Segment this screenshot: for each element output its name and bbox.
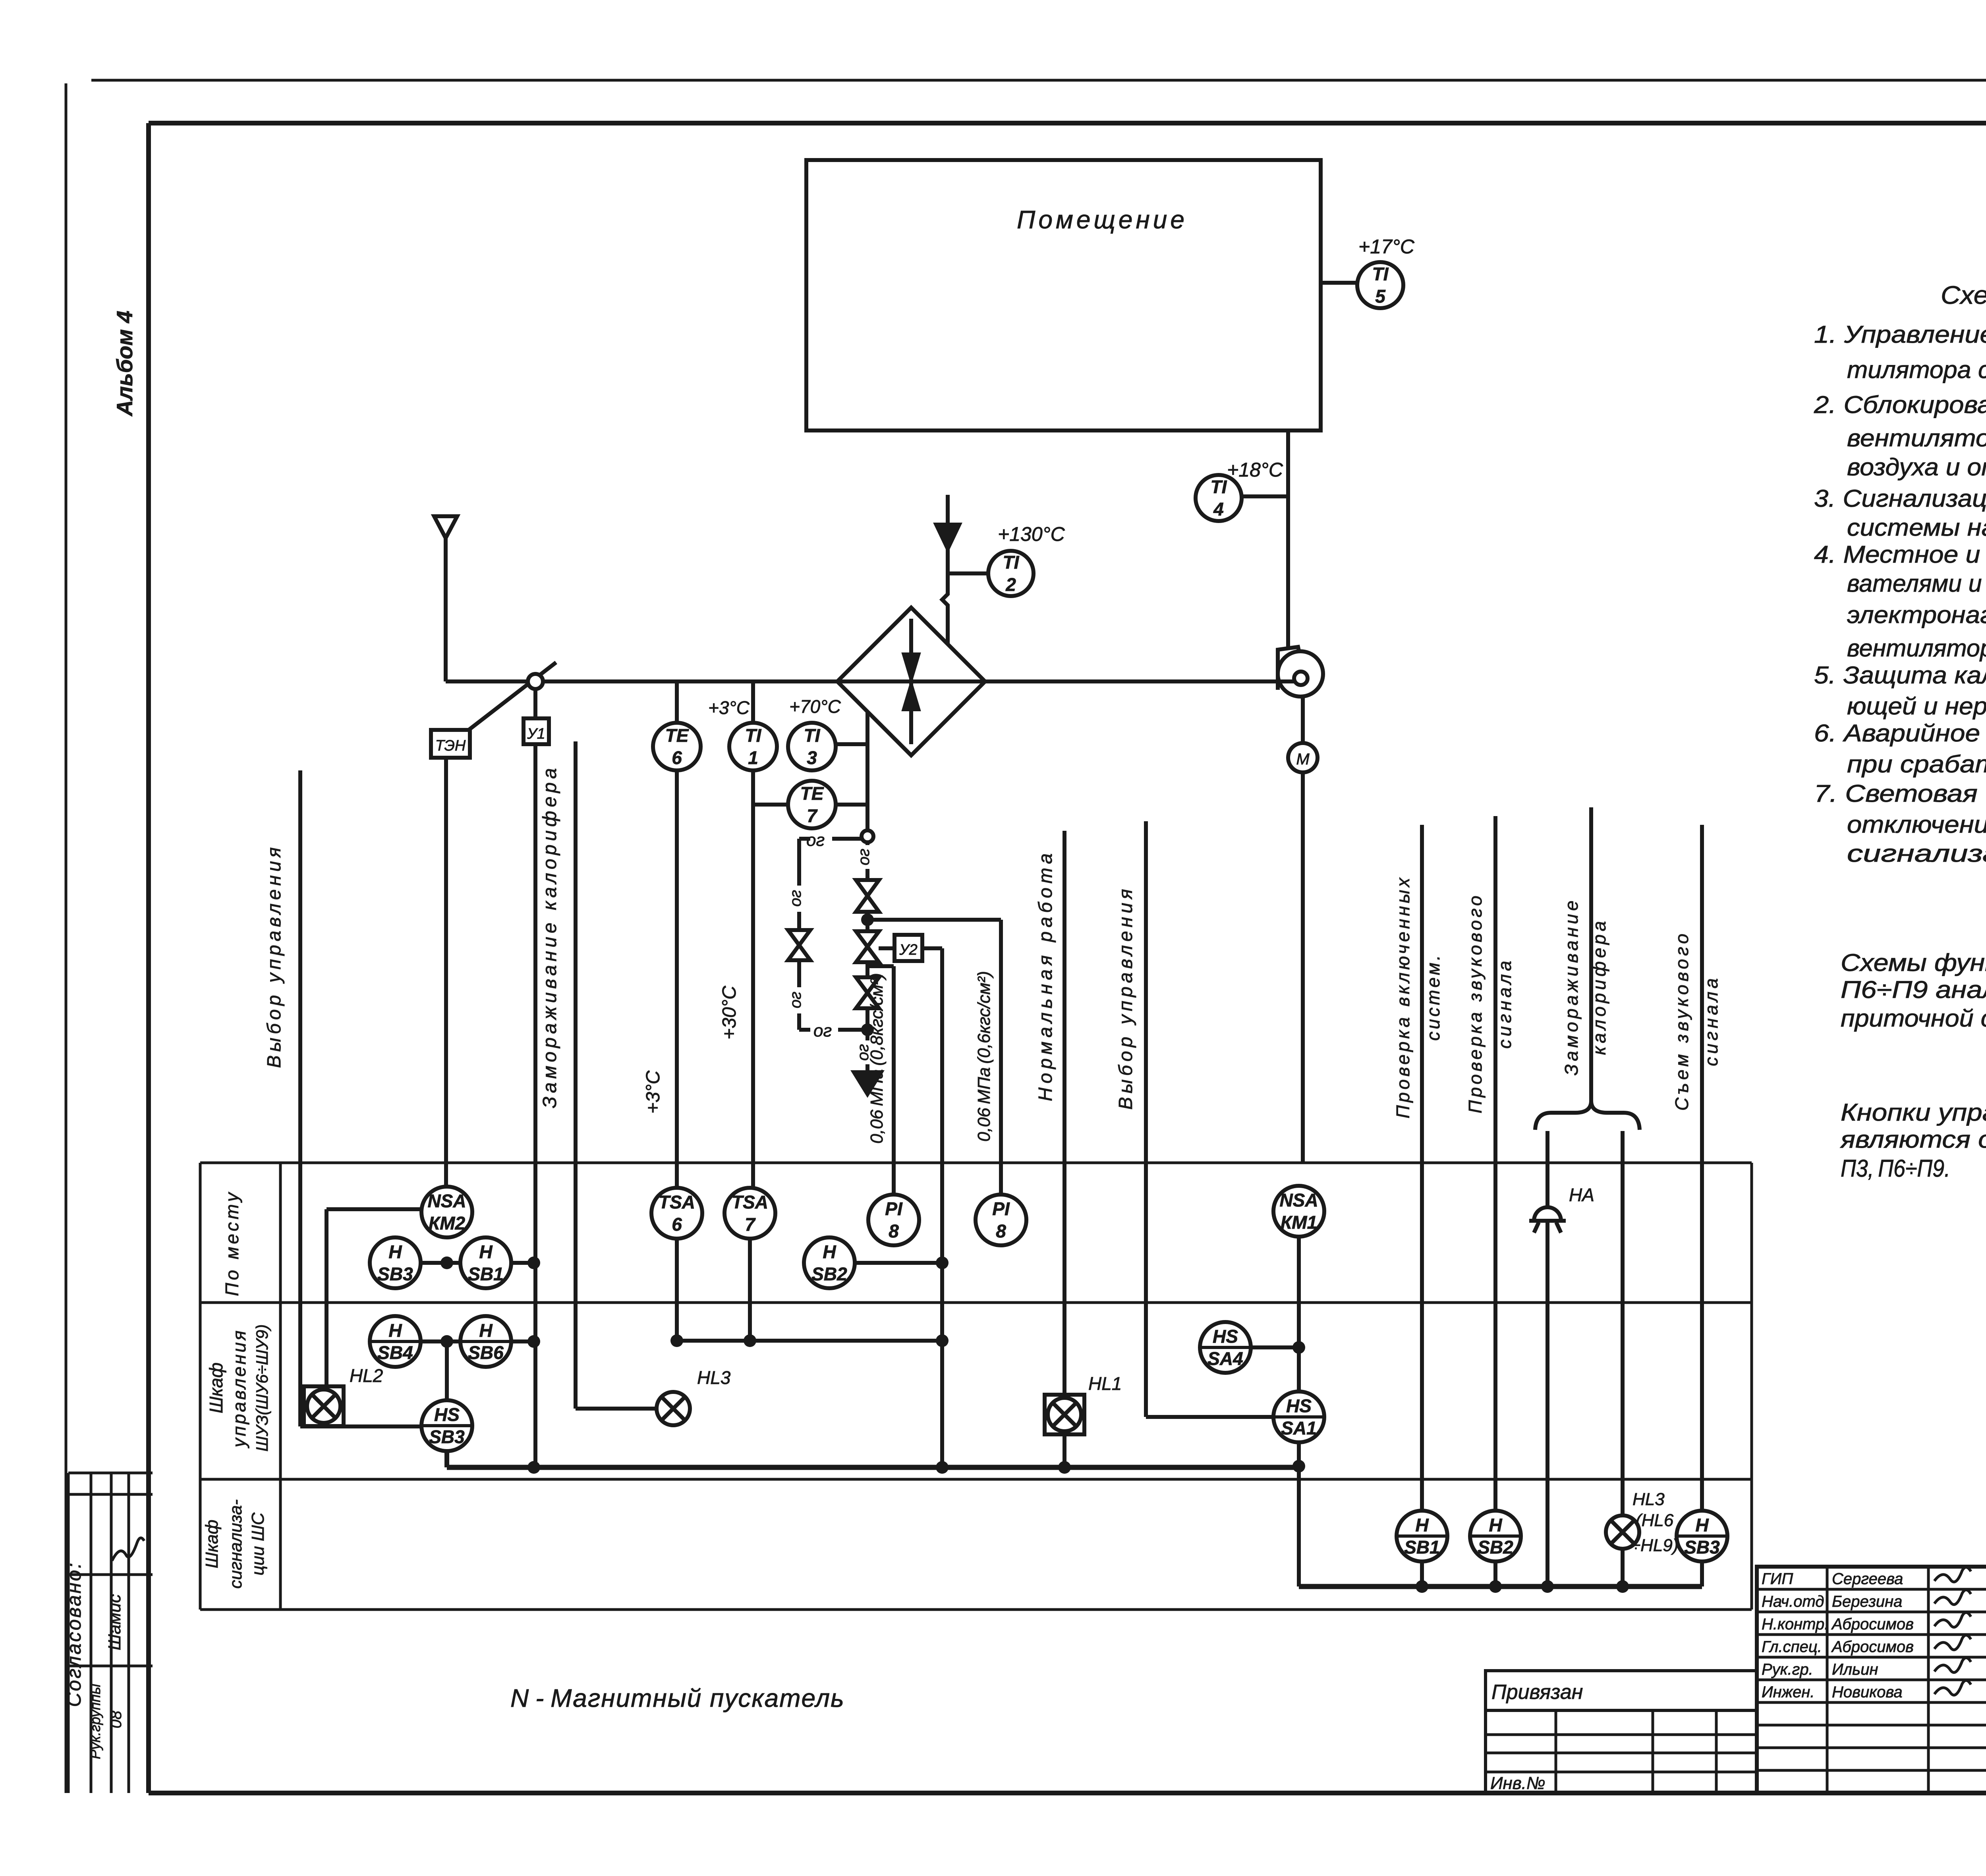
svg-text:ог: ог bbox=[787, 890, 804, 907]
svg-text:SB1: SB1 bbox=[468, 1264, 503, 1284]
svg-text:Замораживание калорифера: Замораживание калорифера bbox=[539, 764, 560, 1108]
svg-text:6: 6 bbox=[672, 1214, 682, 1235]
svg-text:TSA: TSA bbox=[732, 1192, 768, 1212]
svg-text:2: 2 bbox=[1005, 574, 1016, 595]
svg-text:Н: Н bbox=[388, 1320, 402, 1341]
svg-text:Н: Н bbox=[823, 1241, 836, 1262]
svg-text:Н: Н bbox=[1695, 1515, 1709, 1535]
svg-text:+30°C: +30°C bbox=[719, 986, 740, 1040]
svg-text:SA1: SA1 bbox=[1281, 1418, 1316, 1438]
svg-text:отключении приточного вентил: отключении приточного вентилятора на шка… bbox=[1847, 811, 1986, 838]
svg-text:HL3: HL3 bbox=[697, 1367, 731, 1388]
svg-text:Абросимов: Абросимов bbox=[1831, 1638, 1914, 1656]
svg-text:TE: TE bbox=[800, 783, 824, 804]
svg-text:приточной системы П3.: приточной системы П3. bbox=[1841, 1005, 1986, 1032]
svg-text:Шамис: Шамис bbox=[105, 1594, 124, 1650]
svg-text:TE: TE bbox=[665, 725, 689, 746]
svg-text:PI: PI bbox=[885, 1199, 903, 1219]
svg-text:Съем звукового: Съем звукового bbox=[1671, 930, 1692, 1111]
svg-text:HS: HS bbox=[434, 1404, 460, 1425]
svg-text:Согласовано:: Согласовано: bbox=[63, 1561, 85, 1707]
svg-text:электронагревателей при включ: электронагревателей при включении приточ… bbox=[1847, 601, 1986, 628]
svg-text:системы на шкафу управления: системы на шкафу управления ШУЗ (ШУ6÷ШУ9… bbox=[1847, 514, 1986, 541]
svg-text:вентилятора.: вентилятора. bbox=[1847, 635, 1986, 662]
svg-text:ГИП: ГИП bbox=[1762, 1570, 1793, 1588]
svg-text:Рук.группы: Рук.группы bbox=[87, 1684, 103, 1759]
svg-text:Н.контр.: Н.контр. bbox=[1762, 1615, 1829, 1633]
svg-text:У2: У2 bbox=[899, 942, 917, 958]
svg-text:1. Управление электродвигате: 1. Управление электродвигателем приточно… bbox=[1814, 321, 1986, 348]
svg-text:Нормальная работа: Нормальная работа bbox=[1035, 849, 1056, 1101]
svg-text:7. Световая и звуковая сигн: 7. Световая и звуковая сигнализация при … bbox=[1814, 780, 1986, 807]
svg-text:TI: TI bbox=[1003, 552, 1020, 573]
svg-text:SB6: SB6 bbox=[468, 1342, 504, 1363]
svg-text:ТЭН: ТЭН bbox=[435, 737, 466, 754]
svg-text:HS: HS bbox=[1213, 1326, 1238, 1347]
svg-text:Н: Н bbox=[1415, 1515, 1429, 1535]
svg-text:N - Магнитный пускатель: N - Магнитный пускатель bbox=[510, 1684, 845, 1712]
svg-text:Инв.№: Инв.№ bbox=[1490, 1774, 1546, 1793]
svg-text:Замораживание: Замораживание bbox=[1561, 897, 1582, 1075]
svg-text:вателями и автоматическое от: вателями и автоматическое отключение bbox=[1847, 570, 1986, 597]
svg-text:Гл.спец.: Гл.спец. bbox=[1762, 1638, 1822, 1656]
svg-text:+3°C: +3°C bbox=[708, 697, 750, 718]
svg-text:Березина: Березина bbox=[1832, 1593, 1902, 1610]
svg-text:тилятора со шкафа управления: тилятора со шкафа управления ШУЗ (ШУ6÷ШУ… bbox=[1847, 356, 1986, 383]
svg-text:8: 8 bbox=[996, 1221, 1006, 1241]
svg-text:3: 3 bbox=[807, 747, 817, 768]
svg-text:TSA: TSA bbox=[659, 1192, 695, 1212]
svg-text:управления: управления bbox=[229, 1329, 249, 1449]
svg-text:TI: TI bbox=[804, 725, 821, 746]
svg-text:SB3: SB3 bbox=[429, 1426, 465, 1447]
svg-text:6: 6 bbox=[672, 747, 682, 768]
svg-text:HS: HS bbox=[1286, 1395, 1312, 1416]
svg-text:PI: PI bbox=[992, 1199, 1010, 1219]
svg-text:+18°C: +18°C bbox=[1227, 459, 1283, 481]
svg-text:HL2: HL2 bbox=[350, 1365, 383, 1386]
svg-text:сигнала: сигнала bbox=[1494, 957, 1515, 1048]
svg-text:Схемы функциональные приточн: Схемы функциональные приточных систем bbox=[1841, 949, 1986, 976]
svg-text:0,06 МПа (0,8кгс/см²): 0,06 МПа (0,8кгс/см²) bbox=[867, 973, 887, 1144]
svg-text:7: 7 bbox=[807, 805, 818, 826]
svg-text:НА: НА bbox=[1569, 1185, 1594, 1205]
svg-text:SB1: SB1 bbox=[1404, 1537, 1439, 1558]
svg-text:ШУЗ(ШУ6÷ШУ9): ШУЗ(ШУ6÷ШУ9) bbox=[253, 1324, 271, 1452]
svg-text:5: 5 bbox=[1375, 286, 1386, 307]
svg-text:Кнопки управления SB1; SB2,: Кнопки управления SB1; SB2, SB3 и звонок… bbox=[1841, 1099, 1986, 1126]
svg-text:сигнализации ШС.: сигнализации ШС. bbox=[1847, 840, 1986, 867]
svg-text:ог: ог bbox=[855, 849, 873, 865]
svg-text:Шкаф: Шкаф bbox=[206, 1363, 226, 1413]
svg-text:NSA: NSA bbox=[1279, 1190, 1318, 1210]
svg-text:+3°C: +3°C bbox=[643, 1070, 664, 1114]
svg-text:SB4: SB4 bbox=[377, 1342, 413, 1363]
svg-text:+130°C: +130°C bbox=[998, 523, 1065, 545]
svg-text:Выбор управления: Выбор управления bbox=[264, 844, 285, 1068]
svg-text:Н: Н bbox=[479, 1320, 493, 1341]
svg-text:÷HL9): ÷HL9) bbox=[1631, 1536, 1679, 1555]
svg-text:NSA: NSA bbox=[427, 1191, 466, 1211]
svg-text:+70°C: +70°C bbox=[789, 696, 841, 717]
svg-text:HL1: HL1 bbox=[1088, 1373, 1122, 1394]
svg-text:8: 8 bbox=[889, 1221, 899, 1241]
svg-text:Абросимов: Абросимов bbox=[1831, 1615, 1914, 1633]
svg-text:SA4: SA4 bbox=[1207, 1348, 1243, 1369]
svg-text:08: 08 bbox=[107, 1710, 125, 1728]
svg-text:при срабатывании защиты от: при срабатывании защиты от замараживания… bbox=[1847, 751, 1986, 778]
svg-text:Проверка включенных: Проверка включенных bbox=[1393, 875, 1413, 1119]
svg-text:КМ1: КМ1 bbox=[1281, 1212, 1317, 1233]
svg-text:Проверка звукового: Проверка звукового bbox=[1465, 893, 1486, 1113]
svg-text:воздуха и опробование кнопка: воздуха и опробование кнопками по месту. bbox=[1847, 454, 1986, 481]
svg-text:ющей и неработающей системе.: ющей и неработающей системе. bbox=[1847, 693, 1986, 720]
svg-text:Новикова: Новикова bbox=[1832, 1683, 1903, 1701]
svg-text:Шкаф: Шкаф bbox=[202, 1520, 222, 1569]
svg-text:Выбор управления: Выбор управления bbox=[1115, 886, 1136, 1110]
svg-text:Привязан: Привязан bbox=[1491, 1681, 1583, 1704]
svg-text:сигнала: сигнала bbox=[1701, 975, 1721, 1066]
svg-text:Ильин: Ильин bbox=[1832, 1661, 1878, 1678]
svg-text:(HL6: (HL6 bbox=[1636, 1511, 1674, 1530]
svg-text:По месту: По месту bbox=[222, 1190, 242, 1296]
svg-text:SB3: SB3 bbox=[377, 1264, 413, 1284]
svg-text:6. Аварийное отключение при: 6. Аварийное отключение приточного венти… bbox=[1814, 720, 1986, 747]
svg-text:КМ2: КМ2 bbox=[429, 1213, 466, 1233]
svg-text:Инжен.: Инжен. bbox=[1762, 1683, 1815, 1701]
svg-text:являются общими для всех п: являются общими для всех приточных систе… bbox=[1840, 1126, 1986, 1153]
svg-text:4: 4 bbox=[1213, 499, 1224, 519]
svg-text:3. Сигнализация нормальной: 3. Сигнализация нормальной работы приточ… bbox=[1814, 485, 1986, 512]
svg-text:ции ШС: ции ШС bbox=[248, 1512, 268, 1575]
svg-text:Н: Н bbox=[388, 1241, 402, 1262]
svg-text:SB2: SB2 bbox=[1478, 1537, 1513, 1558]
svg-text:Рук.гр.: Рук.гр. bbox=[1762, 1661, 1813, 1678]
svg-text:ог: ог bbox=[787, 992, 804, 1008]
svg-text:7: 7 bbox=[745, 1214, 756, 1235]
svg-text:2. Сблокированное с электродв: 2. Сблокированное с электродвигателем пр… bbox=[1814, 391, 1986, 418]
svg-text:Нач.отд: Нач.отд bbox=[1762, 1593, 1824, 1610]
svg-text:M: M bbox=[1296, 751, 1310, 768]
svg-text:Н: Н bbox=[479, 1241, 493, 1262]
svg-text:TI: TI bbox=[1372, 264, 1389, 284]
svg-text:TI: TI bbox=[745, 725, 762, 746]
svg-text:У1: У1 bbox=[527, 726, 545, 742]
svg-text:систем.: систем. bbox=[1423, 953, 1443, 1040]
svg-text:П6÷П9 аналогичны схеме функ: П6÷П9 аналогичны схеме функциональной bbox=[1841, 976, 1986, 1003]
svg-text:+17°C: +17°C bbox=[1358, 235, 1415, 258]
svg-text:Сергеева: Сергеева bbox=[1832, 1570, 1903, 1588]
svg-text:ог: ог bbox=[813, 1021, 832, 1040]
svg-text:Схемой предусматривается:: Схемой предусматривается: bbox=[1941, 281, 1986, 309]
svg-text:Помещение: Помещение bbox=[1017, 205, 1188, 234]
svg-text:Альбом 4: Альбом 4 bbox=[112, 311, 137, 417]
svg-text:4. Местное и дистанционное: 4. Местное и дистанционное управление эл… bbox=[1814, 541, 1986, 568]
svg-text:Н: Н bbox=[1489, 1515, 1502, 1535]
svg-text:TI: TI bbox=[1211, 477, 1227, 497]
svg-text:5. Защита калорифера от зам: 5. Защита калорифера от замораживания пр… bbox=[1814, 662, 1986, 689]
svg-text:вентилятора управление клапа: вентилятора управление клапаном наружног… bbox=[1847, 425, 1986, 452]
svg-text:0,06 МПа (0,6кгс/см²): 0,06 МПа (0,6кгс/см²) bbox=[974, 971, 994, 1142]
svg-text:П3, П6÷П9.: П3, П6÷П9. bbox=[1841, 1155, 1950, 1182]
svg-text:сигнализа-: сигнализа- bbox=[226, 1500, 245, 1589]
svg-text:калорифера: калорифера bbox=[1589, 918, 1609, 1055]
svg-text:1: 1 bbox=[748, 747, 758, 768]
svg-text:SB2: SB2 bbox=[811, 1264, 847, 1284]
svg-text:SB3: SB3 bbox=[1684, 1537, 1720, 1558]
svg-text:HL3: HL3 bbox=[1632, 1490, 1665, 1509]
